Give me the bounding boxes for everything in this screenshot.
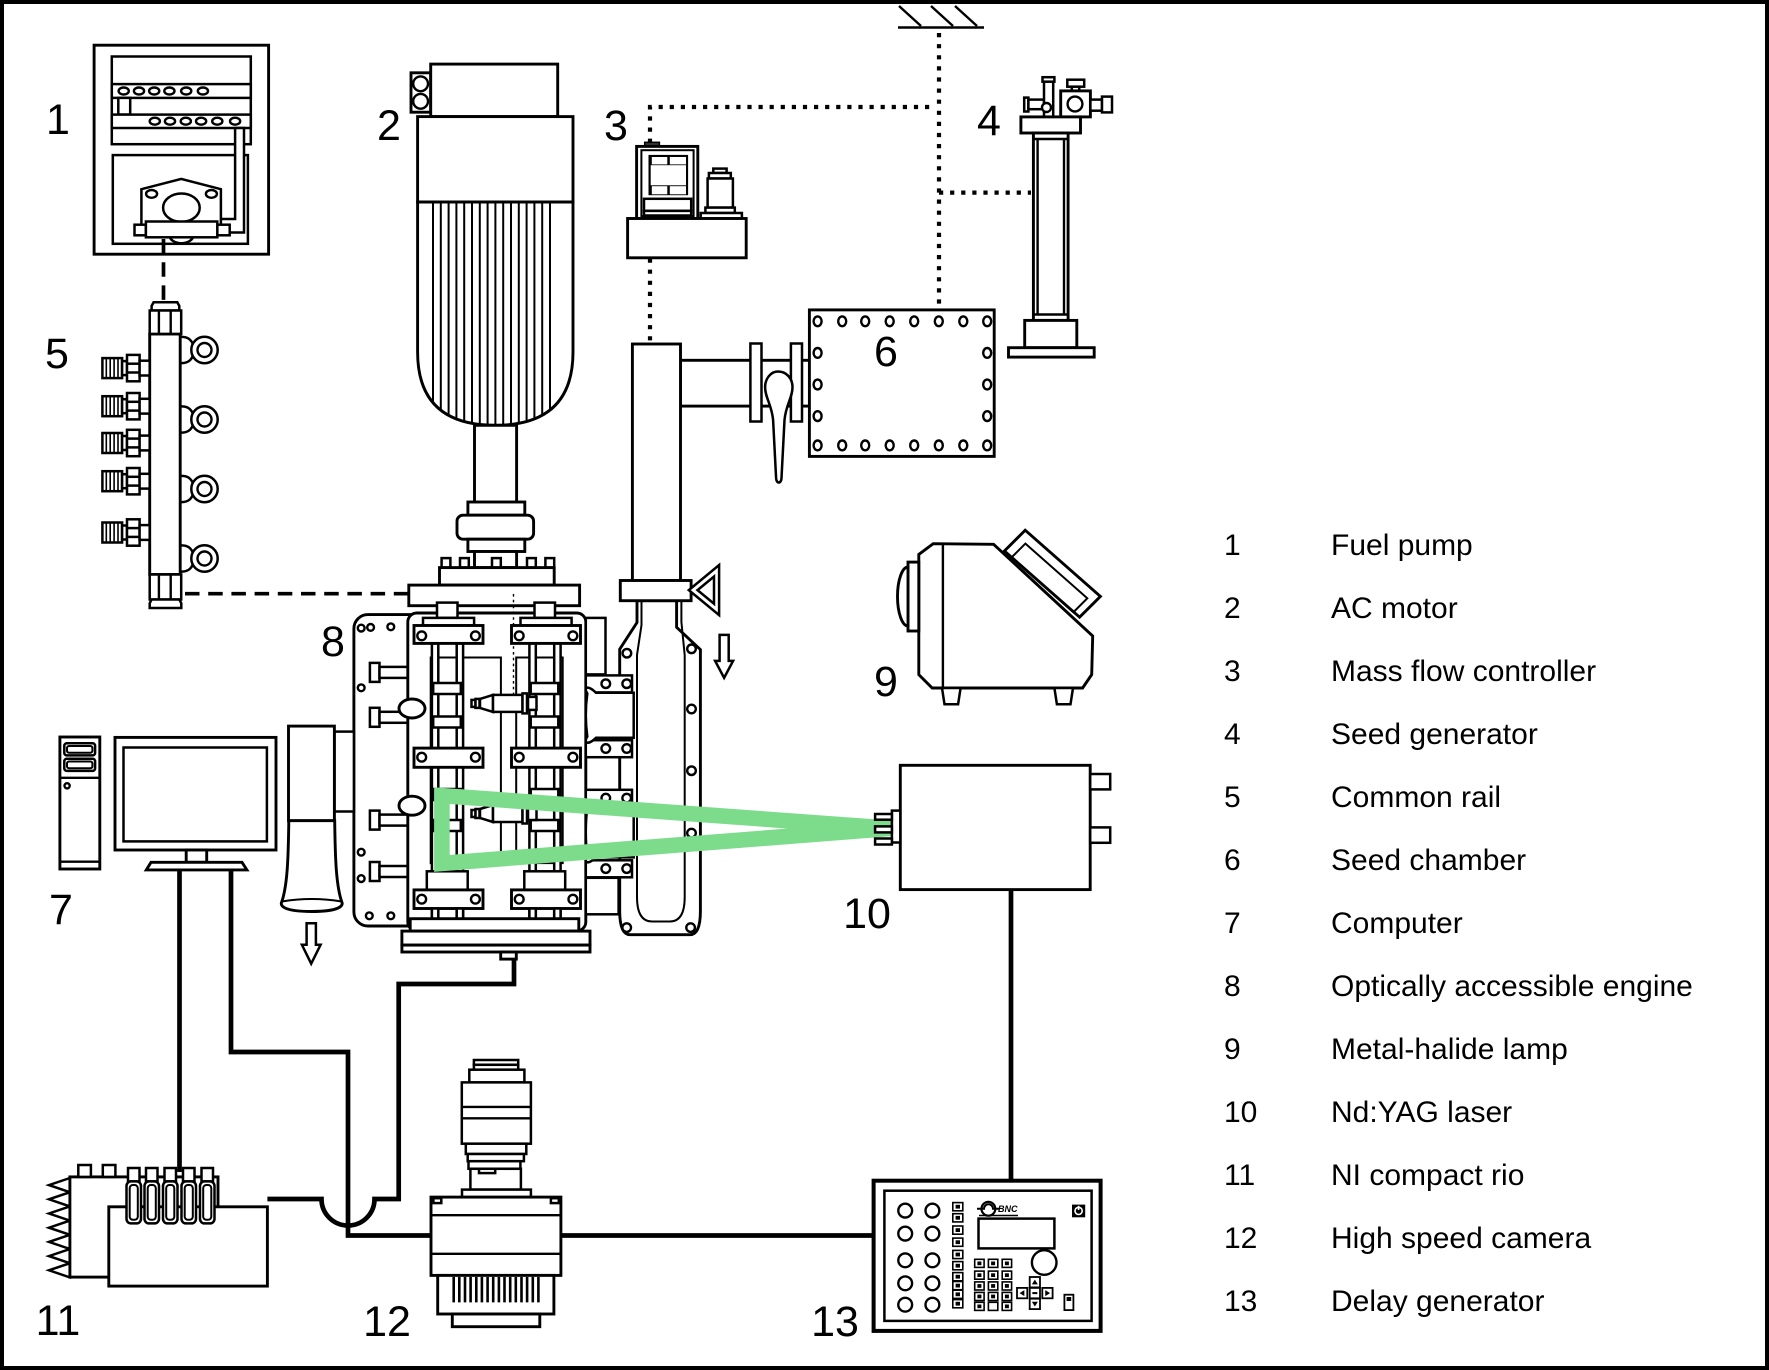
svg-text:8: 8: [1224, 970, 1241, 1003]
duct inlet pointer: [689, 565, 719, 615]
svg-text:9: 9: [874, 658, 898, 706]
dotted line: node to seed generator: [939, 191, 1031, 195]
svg-text:Metal-halide lamp: Metal-halide lamp: [1331, 1033, 1568, 1066]
svg-text:10: 10: [1224, 1096, 1257, 1129]
svg-text:6: 6: [1224, 844, 1241, 877]
svg-text:5: 5: [45, 330, 69, 378]
svg-text:Fuel pump: Fuel pump: [1331, 529, 1473, 562]
svg-text:NI compact rio: NI compact rio: [1331, 1159, 1524, 1192]
svg-text:Common rail: Common rail: [1331, 781, 1501, 814]
svg-text:Seed generator: Seed generator: [1331, 718, 1538, 751]
fuel pump 1: [94, 45, 269, 254]
exhaust horn: [281, 726, 354, 964]
svg-text:2: 2: [377, 102, 401, 150]
metal-halide lamp 9: [898, 530, 1101, 704]
dotted line: ceiling to seed chamber: [937, 33, 941, 309]
svg-text:12: 12: [363, 1298, 411, 1346]
mass flow controller 3: [628, 142, 747, 257]
wire: computer to delay generator: [231, 869, 874, 1236]
engine sight ports: [399, 699, 425, 718]
svg-text:3: 3: [1224, 655, 1241, 688]
fuel injector upper: [472, 693, 537, 713]
wire: Nd:YAG laser to delay generator: [1009, 889, 1014, 1181]
svg-text:2: 2: [1224, 592, 1241, 625]
svg-text:6: 6: [874, 328, 898, 376]
dashed fuel line: fuel pump to common rail: [162, 239, 166, 301]
svg-text:4: 4: [977, 97, 1001, 145]
svg-text:Seed chamber: Seed chamber: [1331, 844, 1526, 877]
svg-text:High speed camera: High speed camera: [1331, 1222, 1591, 1255]
svg-text:5: 5: [1224, 781, 1241, 814]
svg-text:7: 7: [49, 886, 73, 934]
svg-text:Delay generator: Delay generator: [1331, 1285, 1544, 1318]
exhaust flow arrow: [302, 923, 321, 963]
flow arrow in duct: [715, 635, 733, 678]
duct lower runner: [620, 601, 701, 935]
duct collar: [620, 581, 691, 601]
svg-text:Nd:YAG laser: Nd:YAG laser: [1331, 1096, 1512, 1129]
svg-text:Mass flow controller: Mass flow controller: [1331, 655, 1596, 688]
svg-text:10: 10: [843, 890, 891, 938]
engine exhaust flange tabs: [586, 618, 634, 914]
Nd:YAG laser 10: [875, 765, 1110, 889]
svg-text:8: 8: [321, 618, 345, 666]
dotted line: mass flow controller to intake duct: [648, 259, 652, 344]
engine head bolts: [370, 663, 409, 881]
computer monitor: [115, 737, 276, 870]
dashed fuel line: common rail to engine: [185, 592, 409, 596]
ceiling hatch mount: [898, 6, 984, 28]
svg-text:Optically accessible engine: Optically accessible engine: [1331, 970, 1693, 1003]
delay generator 13: [874, 1181, 1101, 1331]
seed generator 4: [1009, 77, 1113, 357]
seed chamber 6: [809, 310, 994, 457]
svg-text:Computer: Computer: [1331, 907, 1463, 940]
dotted line: mass flow controller to ceiling node: [650, 107, 936, 143]
laser beam: [442, 796, 891, 864]
svg-text:4: 4: [1224, 718, 1241, 751]
valve handle: [765, 372, 792, 483]
computer tower: [60, 737, 100, 869]
svg-text:1: 1: [1224, 529, 1241, 562]
common rail 5: [102, 302, 217, 608]
NI compact rio 11: [49, 1165, 267, 1286]
wire: engine to NI compact rio (with hop over crossing wire): [267, 958, 514, 1226]
svg-text:1: 1: [46, 96, 70, 144]
engine base plates: [402, 919, 590, 959]
svg-text:11: 11: [36, 1297, 81, 1345]
engine cylinder tower left: [414, 603, 483, 919]
seed chamber 6 feed pipe and valve: [681, 344, 810, 483]
fuel injector lower: [472, 804, 537, 824]
svg-text:12: 12: [1224, 1222, 1257, 1255]
wire: computer to NI compact rio: [177, 869, 182, 1172]
svg-text:11: 11: [1224, 1159, 1255, 1192]
svg-text:AC motor: AC motor: [1331, 592, 1458, 625]
optically accessible engine 8 : head plate: [354, 615, 430, 926]
intake duct riser: [620, 344, 733, 935]
engine cylinder tower right: [512, 603, 581, 919]
svg-text:13: 13: [1224, 1285, 1257, 1318]
engine main block: [399, 594, 586, 931]
AC motor 2: [409, 64, 580, 606]
svg-text:3: 3: [604, 102, 628, 150]
svg-text:BNC: BNC: [998, 1204, 1018, 1214]
svg-text:9: 9: [1224, 1033, 1241, 1066]
high speed camera 12: [431, 1060, 561, 1327]
svg-text:7: 7: [1224, 907, 1241, 940]
svg-text:13: 13: [811, 1298, 859, 1346]
